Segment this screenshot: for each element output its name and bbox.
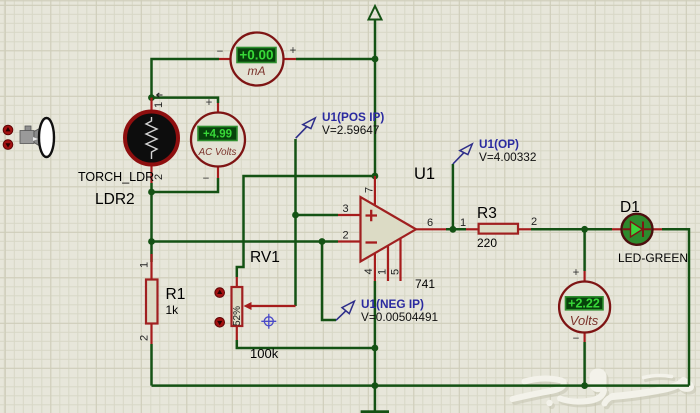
svg-text:+: + xyxy=(290,45,297,57)
svg-text:mA: mA xyxy=(248,64,266,78)
voltmeter VM1 xyxy=(191,97,245,185)
wire OP probe riser xyxy=(452,164,455,229)
svg-text:RV1: RV1 xyxy=(250,249,280,266)
wire voltmeter2 bottom to rail xyxy=(583,342,586,386)
RV1 up button xyxy=(215,288,225,298)
svg-text:D1: D1 xyxy=(620,199,640,216)
wire voltmeter2 top xyxy=(583,229,586,271)
wire VM1 minus to LDR bottom xyxy=(152,178,219,192)
svg-text:741: 741 xyxy=(415,277,435,291)
no-connect crosshair xyxy=(261,314,276,329)
svg-text:7: 7 xyxy=(364,187,376,193)
svg-text:2: 2 xyxy=(531,216,537,228)
svg-text:U1(NEG IP): U1(NEG IP) xyxy=(361,297,424,311)
wire power arrow to trunk xyxy=(374,20,377,177)
wire op-amp output xyxy=(446,228,466,231)
node: trunk/ammeter junction xyxy=(372,56,379,63)
LDR (TORCH_LDR) xyxy=(125,98,178,183)
LED D1 xyxy=(612,214,662,245)
node: voltmeter2 top junction xyxy=(581,226,588,233)
svg-text:LDR2: LDR2 xyxy=(95,191,135,208)
wire LDR top to voltmeter VM1 plus xyxy=(152,98,219,103)
wire divider node to op-amp pin2 xyxy=(152,240,339,243)
svg-text:3: 3 xyxy=(342,203,348,215)
RV1 down button xyxy=(215,318,225,328)
node: RV1 bottom junction xyxy=(372,345,379,352)
origin marker arrow xyxy=(157,93,163,97)
node: pin7 junction xyxy=(372,173,379,180)
svg-text:V=4.00332: V=4.00332 xyxy=(479,150,536,164)
svg-text:2: 2 xyxy=(153,174,165,180)
svg-text:220: 220 xyxy=(477,236,497,250)
probe U1(OP) xyxy=(453,137,537,164)
svg-text:R3: R3 xyxy=(477,205,497,222)
wire RV1 bottom to trunk xyxy=(237,340,375,348)
svg-text:1: 1 xyxy=(139,262,151,268)
svg-text:1: 1 xyxy=(153,102,165,108)
svg-text:V=2.59647: V=2.59647 xyxy=(322,123,379,137)
svg-text:1: 1 xyxy=(377,269,389,275)
probe U1(NEG IP) xyxy=(336,297,438,324)
node: rail-voltmeter2 junction xyxy=(581,382,588,389)
wire R3 to LED xyxy=(531,228,612,231)
torch up button xyxy=(3,125,13,135)
wire R1 bottom to ground rail xyxy=(150,344,153,386)
svg-text:4: 4 xyxy=(363,268,375,274)
svg-text:U1: U1 xyxy=(414,165,435,183)
svg-text:Volts: Volts xyxy=(570,313,599,328)
ground xyxy=(361,410,389,413)
wire pin3 xyxy=(296,214,339,217)
wire ammeter left to LDR top xyxy=(152,59,220,98)
wire pot top to +5 rail xyxy=(237,176,375,277)
resistor R3 xyxy=(460,216,537,234)
svg-text:+: + xyxy=(206,97,213,109)
svg-text:U1(OP): U1(OP) xyxy=(479,137,519,151)
resistor R1 xyxy=(139,254,158,344)
svg-text:+0.00: +0.00 xyxy=(239,48,273,63)
node: voltmeter minus junction xyxy=(148,189,155,196)
wire pos net vertical xyxy=(294,139,297,306)
svg-text:V=0.00504491: V=0.00504491 xyxy=(361,310,438,324)
node: pin3 junction xyxy=(292,212,299,219)
node: NEG probe junction xyxy=(319,238,326,245)
svg-text:6: 6 xyxy=(427,217,433,229)
svg-text:−: − xyxy=(217,46,224,58)
potentiometer RV1 xyxy=(232,277,296,340)
svg-text:5: 5 xyxy=(390,269,402,275)
watermark xyxy=(513,369,697,409)
node: divider node LDR/R1 xyxy=(148,238,155,245)
svg-text:1: 1 xyxy=(460,217,466,229)
svg-text:+2.22: +2.22 xyxy=(568,296,600,310)
svg-text:AC Volts: AC Volts xyxy=(198,147,237,158)
svg-text:1k: 1k xyxy=(166,303,180,317)
svg-text:100k: 100k xyxy=(250,346,279,361)
svg-text:U1(POS IP): U1(POS IP) xyxy=(322,110,384,124)
svg-text:−: − xyxy=(203,173,210,185)
svg-text:2: 2 xyxy=(139,335,151,341)
svg-text:52%: 52% xyxy=(232,306,243,326)
svg-text:LED-GREEN: LED-GREEN xyxy=(618,251,688,265)
wire pin4 to ground trunk xyxy=(374,281,377,411)
svg-text:−: − xyxy=(573,333,580,345)
torch down button xyxy=(3,140,13,150)
probe U1(POS IP) xyxy=(296,110,385,138)
svg-text:+4.99: +4.99 xyxy=(203,129,232,141)
wire ammeter right to trunk xyxy=(296,58,375,61)
wire NEG probe drop xyxy=(322,242,336,321)
svg-text:TORCH_LDR: TORCH_LDR xyxy=(78,170,154,184)
node: rail-trunk junction xyxy=(372,382,379,389)
ammeter AM1 xyxy=(217,33,297,86)
wire ground rail xyxy=(152,384,690,387)
op-amp U1 xyxy=(338,176,446,281)
svg-text:2: 2 xyxy=(342,230,348,242)
power terminal (+5V arrow) xyxy=(369,6,382,20)
voltmeter VM2 xyxy=(559,267,610,345)
svg-text:+: + xyxy=(573,267,580,279)
svg-text:R1: R1 xyxy=(166,286,186,303)
wire LED to right rail xyxy=(662,229,689,385)
torch icon xyxy=(20,118,54,157)
node: output junction xyxy=(450,226,457,233)
wire LDR bottom down to R1 xyxy=(150,183,153,262)
node: LDR top junction xyxy=(148,94,155,101)
